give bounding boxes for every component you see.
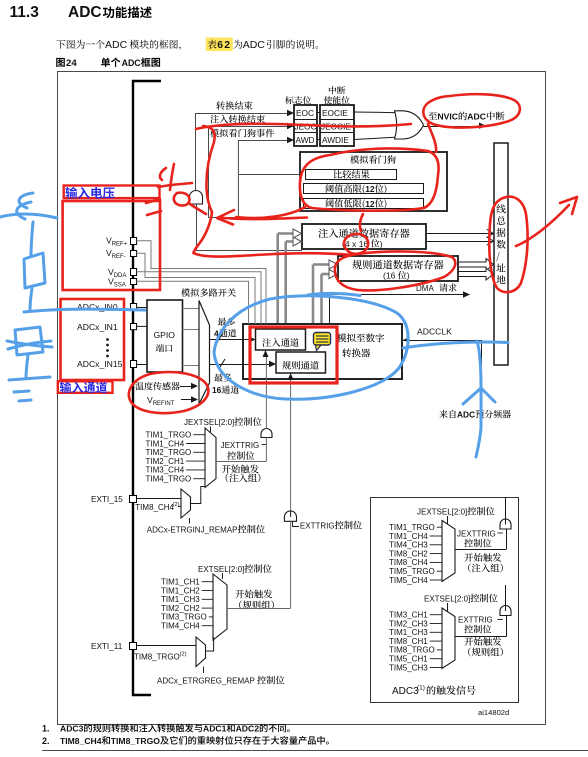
interrupt OR gate U-INT bbox=[395, 111, 424, 139]
blue sketch resistor R2 scribbled bbox=[7, 327, 52, 355]
svg-text:REF+: REF+ bbox=[112, 242, 128, 248]
svg-text:TIM8_CH4: TIM8_CH4 bbox=[389, 558, 428, 567]
svg-text:ADC1: ADC1 bbox=[203, 724, 227, 734]
wire regular trigger to regular channels bbox=[288, 373, 294, 517]
svg-text:AWDIE: AWDIE bbox=[322, 135, 349, 145]
blue sketch wire node to ADCx_IN0 bbox=[24, 309, 145, 312]
figure frame bbox=[58, 72, 546, 725]
red annotation circle around NVIC interrupt text bbox=[423, 94, 520, 127]
pin EXTI_11 bbox=[91, 642, 196, 651]
svg-text:ADC3: ADC3 bbox=[392, 686, 419, 697]
svg-text:62: 62 bbox=[217, 40, 231, 51]
svg-text:ADCx-ETRGINJ_REMAP: ADCx-ETRGINJ_REMAP bbox=[147, 526, 238, 535]
pin ADCx_IN1 bbox=[77, 322, 147, 332]
red annotation box around reference pins bbox=[63, 201, 160, 290]
red annotation circle around 4x16 bbox=[344, 214, 368, 254]
svg-text:TIM5_CH3: TIM5_CH3 bbox=[389, 663, 428, 672]
threshold low box 12bit bbox=[304, 199, 424, 209]
svg-text:TIM1_CH1: TIM1_CH1 bbox=[161, 578, 200, 587]
section heading 11.3 ADC gongnengmiaoshu bbox=[10, 4, 152, 21]
DMA request wire bbox=[329, 283, 470, 324]
wire analog watchdog event to AWD bbox=[210, 129, 294, 217]
blue sketch resistor R1 bbox=[24, 253, 45, 288]
threshold high box 12bit bbox=[304, 184, 424, 195]
svg-text:TIM1_CH3: TIM1_CH3 bbox=[161, 595, 200, 604]
svg-text:2.: 2. bbox=[42, 736, 50, 746]
footer rule bbox=[42, 750, 588, 752]
svg-text:NVIC: NVIC bbox=[437, 112, 458, 122]
pin VSSA bbox=[108, 277, 137, 289]
svg-text:ADC: ADC bbox=[105, 39, 128, 51]
pin VREF- bbox=[106, 248, 137, 260]
figure caption tu24 single ADC block diagram bbox=[56, 57, 160, 69]
injected trigger mux bbox=[205, 428, 216, 488]
GPIO port box bbox=[147, 300, 183, 372]
analog multiplexer bbox=[181, 288, 236, 404]
TIM8_CH4 remap input bbox=[135, 502, 181, 512]
svg-text:ADC: ADC bbox=[243, 39, 266, 51]
inset regular trigger mux bbox=[442, 608, 455, 669]
red annotation arrow to upper right bbox=[516, 197, 577, 246]
analog watchdog box bbox=[300, 152, 447, 211]
wire injected trigger to injected channels bbox=[222, 350, 269, 482]
red annotation box around input channel pins bbox=[61, 299, 125, 380]
pin ADCx_IN0 bbox=[77, 302, 147, 312]
svg-text:ADCCLK: ADCCLK bbox=[417, 327, 452, 337]
hollow arrow converter to regular register upper bbox=[313, 260, 338, 352]
regular channels box bbox=[276, 352, 326, 373]
svg-text:ADC3: ADC3 bbox=[60, 724, 84, 734]
hollow arrow converter to injected register upper bbox=[278, 229, 302, 329]
svg-text:12: 12 bbox=[365, 199, 375, 209]
footnote 2 bbox=[42, 736, 329, 746]
svg-text:REF-: REF- bbox=[112, 254, 126, 260]
ADCCLK wire from prescaler bbox=[403, 327, 511, 420]
interrupt enable bits box EOCIE JEOCIE AWDIE bbox=[320, 86, 354, 146]
ellipsis dots input channels bbox=[106, 338, 109, 357]
svg-text:EXTI_11: EXTI_11 bbox=[91, 642, 123, 651]
wire VREF- into converter bbox=[137, 253, 255, 324]
svg-text:TIM4_CH3: TIM4_CH3 bbox=[389, 541, 428, 550]
wire VSSA into converter bbox=[137, 281, 249, 324]
svg-text:REFINT: REFINT bbox=[153, 401, 175, 407]
analog to digital converter box U-ADC bbox=[243, 324, 402, 379]
inset caption ADC3 trigger signals bbox=[392, 685, 476, 698]
inset injected TIM inputs bbox=[389, 523, 442, 585]
body paragraph with highlighted biao62 bbox=[56, 38, 318, 52]
red annotation loop around regular register bbox=[335, 251, 455, 290]
svg-text:TIM3_TRGO: TIM3_TRGO bbox=[161, 613, 207, 622]
svg-text:11.3: 11.3 bbox=[10, 4, 40, 21]
inset wire regular mux to gate bbox=[455, 616, 507, 637]
blue label input channels bbox=[60, 382, 107, 393]
ADCx-ETRGINJ_REMAP control bits label bbox=[147, 525, 265, 535]
svg-text:TIM8_CH4: TIM8_CH4 bbox=[60, 736, 102, 746]
red annotation box input channels label bbox=[58, 381, 113, 393]
ADC module boundary thick line bbox=[133, 81, 161, 695]
svg-text:JEXTTRIG: JEXTTRIG bbox=[221, 441, 260, 450]
red annotation watchdog tail with left arrow bbox=[217, 207, 307, 225]
wire ADC interrupt to NVIC bbox=[424, 112, 505, 129]
svg-text:ADC: ADC bbox=[457, 410, 475, 420]
ADC3 trigger inset box bbox=[371, 498, 519, 703]
svg-text:ADC2: ADC2 bbox=[236, 724, 260, 734]
red annotation long stroke to regular register loop bbox=[194, 253, 353, 257]
hollow arrow converter to regular register lower bbox=[322, 270, 338, 353]
injected channel data register box bbox=[302, 224, 426, 249]
blue annotation dash above converter bbox=[308, 293, 360, 295]
wires flag box to enable box bbox=[317, 113, 320, 140]
inset injected trigger mux bbox=[442, 521, 455, 582]
inset regular TIM inputs bbox=[389, 611, 442, 673]
svg-text:TIM8_CH4: TIM8_CH4 bbox=[135, 503, 174, 512]
footnote 1 bbox=[42, 724, 290, 734]
inset EXTTRIG gate bbox=[458, 585, 511, 633]
wires injected register to bus bbox=[426, 230, 494, 246]
svg-text:TIM1_CH2: TIM1_CH2 bbox=[161, 586, 200, 595]
blue sketch wire resistor to node bbox=[30, 288, 32, 310]
svg-text:EXTI_15: EXTI_15 bbox=[91, 495, 123, 504]
temperature sensor input bbox=[135, 382, 198, 390]
blue sketch ground bbox=[9, 377, 50, 401]
TIM8_TRGO remap input bbox=[134, 652, 187, 662]
pin EXTI_15 bbox=[91, 495, 181, 504]
svg-text:ai14802d: ai14802d bbox=[478, 708, 509, 717]
yellow note icon bbox=[314, 333, 331, 351]
blue sketch chevrons top left bbox=[0, 193, 57, 219]
wire regular mux output bbox=[227, 608, 291, 610]
pin ADCx_IN15 bbox=[77, 359, 147, 369]
svg-text:GPIO: GPIO bbox=[154, 330, 176, 340]
wire mux to regular channels max 16 bbox=[210, 359, 277, 395]
svg-text:TIM1_CH4: TIM1_CH4 bbox=[389, 532, 428, 541]
JEXTTRIG gate bbox=[221, 429, 272, 460]
svg-text:): ) bbox=[380, 239, 383, 249]
wire mux to injected channels max 4 bbox=[210, 317, 256, 342]
flag bits box EOC JEOC AWD bbox=[285, 96, 317, 146]
inset wire injected mux to gate bbox=[455, 529, 507, 550]
svg-text:TIM4_TRGO: TIM4_TRGO bbox=[146, 475, 192, 484]
red annotation box input voltage label bbox=[64, 186, 160, 199]
svg-text:TIM1_TRGO: TIM1_TRGO bbox=[389, 523, 435, 532]
regular trigger inputs TIM list bbox=[161, 578, 213, 631]
svg-text:TIM8_TRGO: TIM8_TRGO bbox=[389, 646, 435, 655]
svg-text:TIM1_CH3: TIM1_CH3 bbox=[389, 628, 428, 637]
start trigger regular group label bbox=[235, 590, 274, 610]
svg-text:(2): (2) bbox=[180, 652, 187, 658]
injected remap mux bbox=[181, 487, 205, 524]
svg-text:TIM2_CH2: TIM2_CH2 bbox=[161, 604, 200, 613]
injected channels box bbox=[256, 329, 306, 350]
blue sketch wire to resistor bbox=[31, 222, 33, 256]
wires GPIO to analog mux bbox=[183, 309, 200, 366]
svg-text:(2): (2) bbox=[173, 502, 180, 508]
svg-text:TIM4_CH4: TIM4_CH4 bbox=[161, 622, 200, 631]
svg-text:EXTSEL[2:0]: EXTSEL[2:0] bbox=[424, 595, 470, 604]
red annotation scratch marks near gate bbox=[146, 164, 206, 215]
address data bus bar bbox=[494, 143, 508, 365]
svg-text:1.: 1. bbox=[42, 724, 50, 734]
svg-text:TIM2_CH1: TIM2_CH1 bbox=[146, 457, 185, 466]
svg-text:16: 16 bbox=[212, 385, 222, 395]
inset start trigger injected group label bbox=[464, 553, 503, 572]
regular trigger mux bbox=[213, 574, 227, 640]
pin VDDA bbox=[108, 267, 137, 279]
svg-text:DDA: DDA bbox=[114, 273, 127, 279]
hollow arrows regular register to bus bbox=[459, 259, 494, 281]
blue sketch wire resistor to ground bbox=[26, 355, 28, 378]
svg-text:EXTTRIG: EXTTRIG bbox=[458, 616, 493, 625]
EXTSEL control bits label bbox=[198, 564, 272, 579]
red annotation connector circle to watchdog bbox=[428, 124, 436, 152]
EXTTRIG gate bbox=[284, 511, 362, 531]
svg-text:ADC: ADC bbox=[122, 58, 142, 68]
regular remap mux bbox=[196, 637, 214, 673]
red annotation ellipse around temperature sensor bbox=[129, 372, 208, 413]
svg-text:(1): (1) bbox=[417, 685, 425, 692]
svg-text:TIM3_CH4: TIM3_CH4 bbox=[146, 466, 185, 475]
svg-text:EOCIE: EOCIE bbox=[322, 108, 348, 118]
svg-text:12: 12 bbox=[365, 184, 375, 194]
svg-text:TIM8_TRGO: TIM8_TRGO bbox=[134, 653, 180, 662]
hollow arrow converter to injected register lower bbox=[286, 237, 302, 329]
figure id ai14802d bbox=[478, 708, 509, 717]
svg-text:ADCx_ETRGREG_REMAP: ADCx_ETRGREG_REMAP bbox=[157, 677, 255, 686]
svg-text:SSA: SSA bbox=[114, 283, 126, 289]
red annotation box around channel selectors bbox=[250, 327, 337, 383]
wire regular mux output to EXTTRIG gate bbox=[290, 521, 292, 608]
svg-text:ADC: ADC bbox=[68, 4, 102, 21]
svg-text:TIM8_TRGO: TIM8_TRGO bbox=[111, 736, 160, 746]
wires enable box to interrupt OR gate bbox=[354, 112, 399, 140]
svg-text:JEXTSEL[2:0]: JEXTSEL[2:0] bbox=[184, 418, 234, 427]
wire injected end-of-conversion to JEOC bbox=[208, 115, 294, 218]
wire compare result to watchdog bbox=[238, 174, 305, 176]
injected trigger inputs TIM list bbox=[146, 431, 206, 484]
red annotation stroke along conversion lines bbox=[196, 124, 411, 129]
red annotation loop around data bus bbox=[489, 197, 527, 292]
wire VREF+ into converter bbox=[137, 241, 266, 324]
compare result box bbox=[306, 170, 397, 180]
inset JEXTTRIG gate bbox=[457, 498, 511, 548]
svg-text:24: 24 bbox=[66, 58, 77, 69]
svg-text:): ) bbox=[407, 271, 410, 281]
ADCx_ETRGREG_REMAP control bits label bbox=[157, 676, 284, 686]
regular channel data register box bbox=[338, 256, 458, 281]
svg-text:TIM1_TRGO: TIM1_TRGO bbox=[146, 431, 192, 440]
JEXTSEL control bits label bbox=[184, 417, 262, 432]
svg-text:TIM1_CH4: TIM1_CH4 bbox=[146, 439, 185, 448]
svg-text:TIM5_CH4: TIM5_CH4 bbox=[389, 576, 428, 585]
svg-text:TIM3_CH1: TIM3_CH1 bbox=[389, 611, 428, 620]
svg-text:TIM8_CH1: TIM8_CH1 bbox=[389, 637, 428, 646]
red annotation watchdog loop bbox=[300, 148, 439, 210]
svg-text:ADCx_IN15: ADCx_IN15 bbox=[77, 359, 123, 369]
svg-text:TIM5_TRGO: TIM5_TRGO bbox=[389, 567, 435, 576]
svg-text:TIM8_CH2: TIM8_CH2 bbox=[389, 549, 428, 558]
svg-text:TIM2_TRGO: TIM2_TRGO bbox=[146, 448, 192, 457]
svg-text:EXTSEL[2:0]: EXTSEL[2:0] bbox=[198, 565, 244, 574]
blue label input voltage bbox=[65, 187, 114, 199]
svg-text:(16: (16 bbox=[383, 271, 396, 281]
wire end-of-conversion to EOC bbox=[195, 101, 294, 190]
blue annotation trace along ADCCLK bbox=[403, 341, 508, 457]
svg-text:JEXTTRIG: JEXTTRIG bbox=[457, 530, 496, 539]
gate on EOC line bbox=[190, 191, 203, 205]
svg-text:EXTTRIG: EXTTRIG bbox=[300, 522, 335, 531]
svg-text:ADC: ADC bbox=[467, 112, 486, 122]
inset start trigger regular group label bbox=[464, 637, 503, 656]
wire VDDA into converter bbox=[137, 272, 261, 324]
pin VREF+ bbox=[106, 236, 137, 248]
wire injected mux output to gate bbox=[216, 438, 266, 462]
svg-text:JEXTSEL[2:0]: JEXTSEL[2:0] bbox=[417, 508, 467, 517]
VREFINT input bbox=[147, 395, 198, 407]
inset EXTSEL control bits label bbox=[424, 594, 498, 612]
red annotation vertical stroke beside gate bbox=[194, 126, 215, 253]
blue annotation ellipse around converter bbox=[214, 296, 408, 399]
wire gate output down to injected register bbox=[196, 205, 302, 251]
svg-text:TIM5_CH1: TIM5_CH1 bbox=[389, 655, 428, 664]
svg-text:AWD: AWD bbox=[296, 135, 315, 145]
inset JEXTSEL control bits label bbox=[417, 507, 495, 525]
svg-text:EOC: EOC bbox=[296, 108, 314, 118]
svg-text:ADCx_IN1: ADCx_IN1 bbox=[77, 322, 118, 332]
svg-text:TIM2_CH3: TIM2_CH3 bbox=[389, 619, 428, 628]
